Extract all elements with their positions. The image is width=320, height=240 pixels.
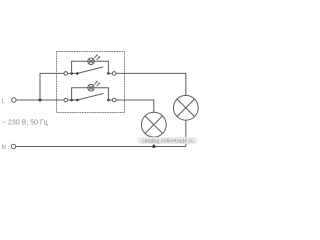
wire S2 to lamp EL1 <box>116 100 154 112</box>
wire S1 output <box>108 72 112 74</box>
wire S1 input <box>68 72 78 74</box>
wire EL2 to N <box>185 120 187 146</box>
wire S2 lamp loop <box>72 88 109 100</box>
terminal L <box>12 98 16 102</box>
svg-text:catalog.onlinetrade.ru: catalog.onlinetrade.ru <box>142 139 194 145</box>
wire S2 output <box>108 99 112 101</box>
switch S1 pivot <box>76 72 79 75</box>
switch enclosure dashed box <box>57 52 125 113</box>
node S1 C <box>107 72 110 75</box>
terminal S2 right <box>112 98 116 102</box>
glow lamp HL1 arrows <box>94 54 100 59</box>
wire EL1 to N <box>153 137 155 146</box>
lamp EL2 <box>173 95 198 120</box>
terminal S1 left <box>64 72 68 76</box>
watermark <box>138 137 198 145</box>
wire riser to gang 1 <box>40 73 64 100</box>
lamp EL1 <box>141 112 166 137</box>
wire N <box>16 146 186 148</box>
wire L feed <box>16 99 64 101</box>
glow lamp HL2 <box>88 84 95 91</box>
switch S2 blade <box>77 94 103 101</box>
glow lamp HL2 arrows <box>94 81 100 86</box>
svg-text:N: N <box>2 145 6 151</box>
switch S2 pivot <box>76 99 79 102</box>
terminal S2 left <box>64 98 68 102</box>
node S2 A <box>70 99 73 102</box>
glow lamp HL1 <box>88 58 95 65</box>
junction L <box>39 99 42 102</box>
wire S1 to lamp EL2 <box>116 73 186 95</box>
wire S2 input <box>68 99 78 101</box>
terminal N <box>11 144 15 148</box>
svg-text:~ 230 В, 50 Гц: ~ 230 В, 50 Гц <box>2 119 48 126</box>
switch S1 blade <box>77 67 103 74</box>
terminal S1 right <box>112 72 116 76</box>
node S2 C <box>107 99 110 102</box>
junction EL1-N <box>152 145 155 148</box>
node S1 A <box>70 72 73 75</box>
wire S1 lamp loop <box>72 61 109 73</box>
